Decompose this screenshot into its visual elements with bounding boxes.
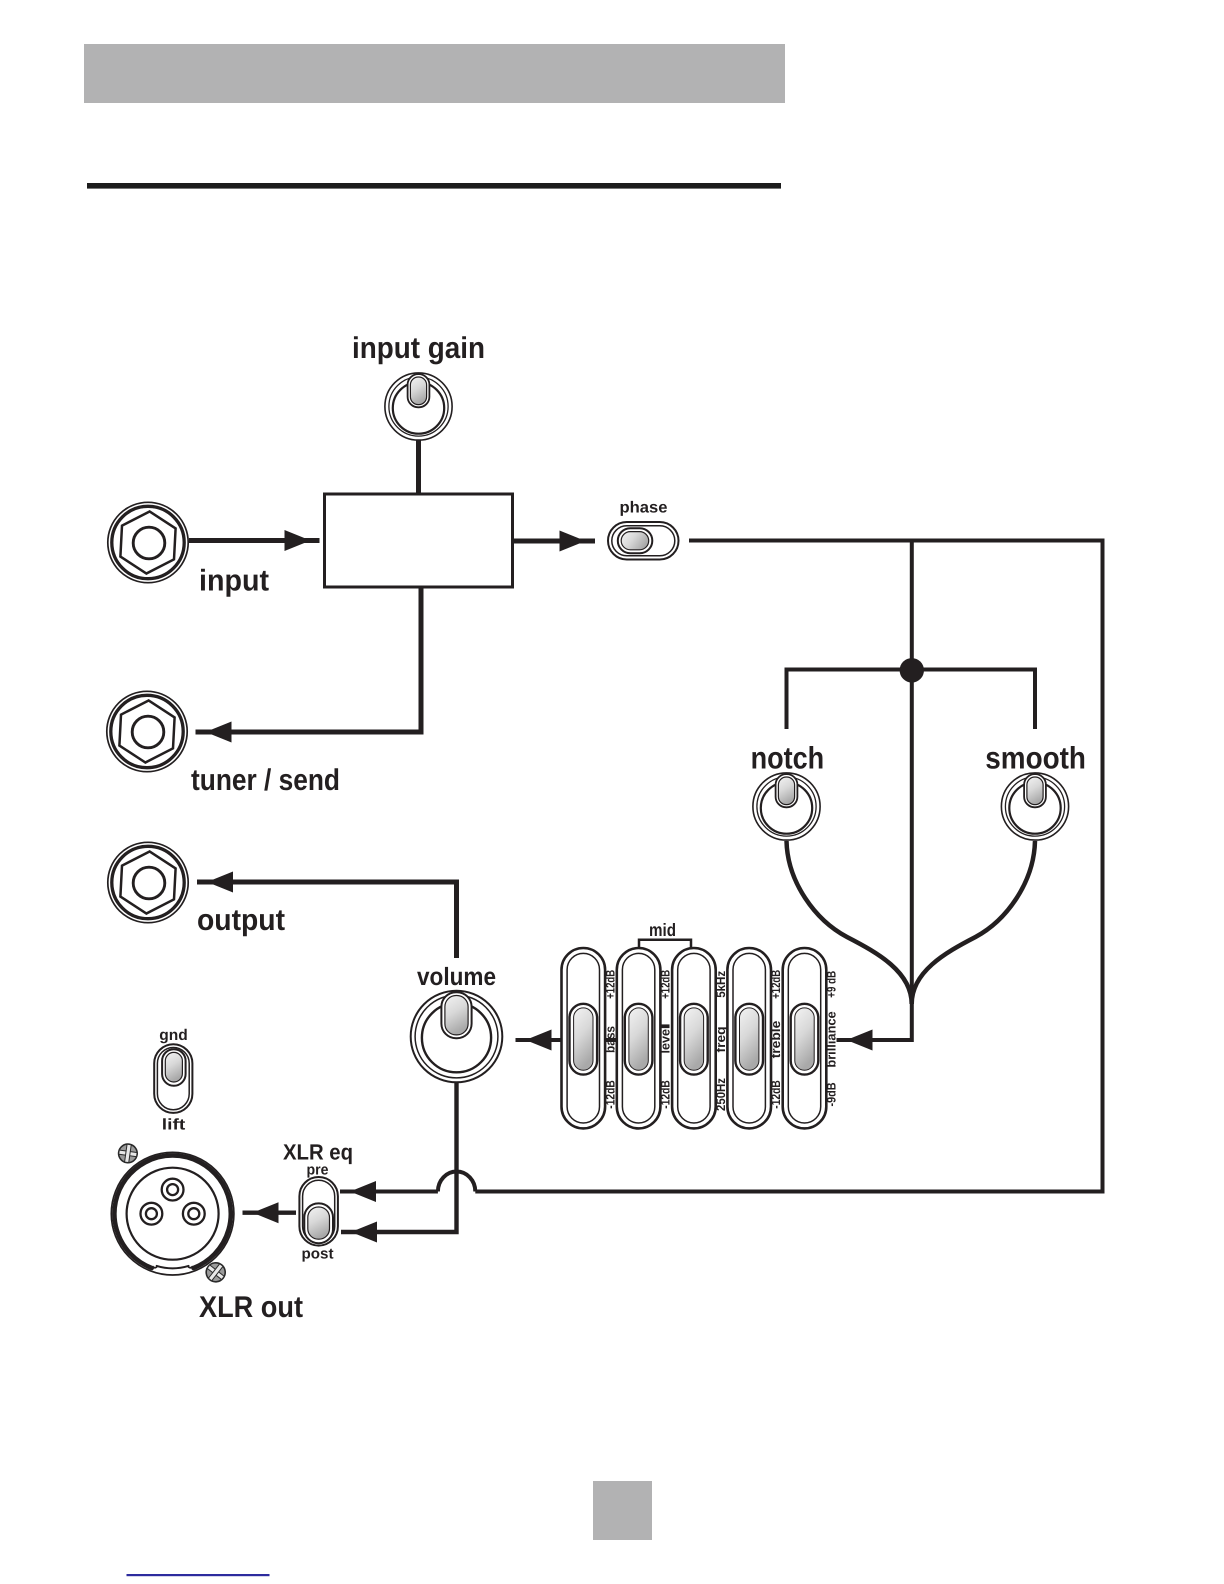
svg-text:smooth: smooth bbox=[985, 741, 1086, 776]
wire: branch to notch and smooth bbox=[787, 670, 1036, 730]
screw top-left of XLR bbox=[117, 1143, 138, 1164]
svg-text:output: output bbox=[197, 904, 285, 937]
wire: curve from notch to EQ feed bbox=[787, 841, 912, 1004]
svg-text:-12dB: -12dB bbox=[603, 1080, 617, 1108]
svg-text:level: level bbox=[658, 1026, 673, 1054]
svg-text:-12dB: -12dB bbox=[769, 1080, 783, 1108]
svg-text:bass: bass bbox=[602, 1026, 617, 1053]
svg-text:+12dB: +12dB bbox=[603, 970, 617, 999]
wire: EQ out through bass label to volume bbox=[516, 1038, 621, 1042]
svg-text:gnd: gnd bbox=[159, 1027, 188, 1044]
svg-text:-9dB: -9dB bbox=[825, 1082, 839, 1106]
knob: input gain bbox=[385, 373, 452, 440]
wire: phase to right bus corner bbox=[689, 539, 1105, 543]
arrowhead into XLR out bbox=[253, 1202, 279, 1223]
jack: tuner/send bbox=[107, 691, 187, 771]
switch: XLR eq bbox=[299, 1177, 338, 1246]
arrowhead into tuner/send jack bbox=[206, 722, 232, 743]
footer blue rule bbox=[127, 1574, 270, 1576]
header gray bar bbox=[84, 44, 785, 103]
svg-text:phase: phase bbox=[620, 500, 668, 517]
wire: input jack to box bbox=[189, 538, 320, 543]
svg-text:mid: mid bbox=[649, 920, 676, 940]
knob: notch bbox=[753, 773, 820, 840]
wire: right bus vertical down bbox=[1101, 539, 1105, 1192]
bracket: mid bbox=[639, 940, 691, 948]
svg-text:-12dB: -12dB bbox=[659, 1080, 673, 1108]
svg-text:input: input bbox=[199, 565, 269, 598]
svg-text:freq: freq bbox=[713, 1026, 728, 1052]
wire: XLR eq to XLR out bbox=[243, 1210, 297, 1214]
footer gray square bbox=[593, 1481, 652, 1540]
slider: brilliance bbox=[783, 948, 827, 1128]
svg-text:+12dB: +12dB bbox=[769, 970, 783, 999]
svg-text:250Hz: 250Hz bbox=[714, 1078, 728, 1111]
svg-text:pre: pre bbox=[307, 1162, 329, 1179]
svg-text:input gain: input gain bbox=[352, 332, 485, 365]
svg-text:notch: notch bbox=[751, 741, 825, 776]
wire hop over volume line bbox=[438, 1172, 475, 1192]
arrowhead into EQ (brilliance side) bbox=[847, 1030, 873, 1051]
arrowhead into XLR eq post bbox=[351, 1222, 377, 1243]
svg-text:volume: volume bbox=[417, 963, 496, 991]
preamp box bbox=[325, 494, 513, 587]
svg-text:post: post bbox=[302, 1246, 334, 1263]
wire: center vertical from bus to EQ arrow corner bbox=[837, 541, 912, 1041]
switch: gnd/lift bbox=[154, 1044, 192, 1113]
wire: box to phase switch bbox=[513, 539, 596, 544]
jack: output bbox=[108, 842, 188, 922]
svg-text:+9 dB: +9 dB bbox=[825, 971, 839, 998]
arrowhead into XLR eq pre bbox=[350, 1181, 376, 1202]
slider: treble bbox=[727, 948, 771, 1128]
arrowhead into volume bbox=[526, 1030, 552, 1051]
arrowhead into phase switch bbox=[560, 531, 586, 552]
slider: bass bbox=[562, 948, 606, 1128]
wire: hop to pre arrow (left part) bbox=[340, 1190, 438, 1194]
svg-text:5kHz: 5kHz bbox=[714, 971, 728, 998]
knob: smooth bbox=[1001, 773, 1068, 840]
svg-text:brilliance: brilliance bbox=[824, 1011, 839, 1067]
wire: input gain knob stem to box bbox=[416, 438, 421, 496]
XLR out connector bbox=[111, 1152, 234, 1275]
svg-text:lift: lift bbox=[162, 1117, 186, 1134]
svg-text:+12dB: +12dB bbox=[659, 970, 673, 999]
switch: phase body bbox=[608, 522, 679, 560]
slider: freq bbox=[672, 948, 716, 1128]
header black rule bbox=[87, 183, 781, 189]
tick after level label bbox=[661, 1024, 670, 1026]
wire: bus bottom to pre arrow (right part) bbox=[475, 1190, 1104, 1194]
slider: level bbox=[617, 948, 661, 1128]
wire: box bottom down to tuner/send bbox=[196, 585, 422, 732]
arrowhead into box (input) bbox=[285, 530, 311, 551]
jack: input bbox=[108, 502, 188, 582]
svg-text:XLR out: XLR out bbox=[199, 1291, 303, 1324]
arrowhead into output jack bbox=[207, 872, 233, 893]
svg-text:treble: treble bbox=[768, 1021, 783, 1059]
svg-text:tuner / send: tuner / send bbox=[191, 764, 340, 797]
wire: volume bottom to post arrow bbox=[341, 1083, 457, 1232]
junction dot bbox=[900, 658, 924, 682]
wire: volume top corner to output bbox=[197, 882, 457, 958]
wire: curve from smooth to EQ feed bbox=[912, 841, 1035, 1004]
screw bottom-right of XLR bbox=[202, 1259, 229, 1286]
knob: volume bbox=[411, 991, 503, 1083]
